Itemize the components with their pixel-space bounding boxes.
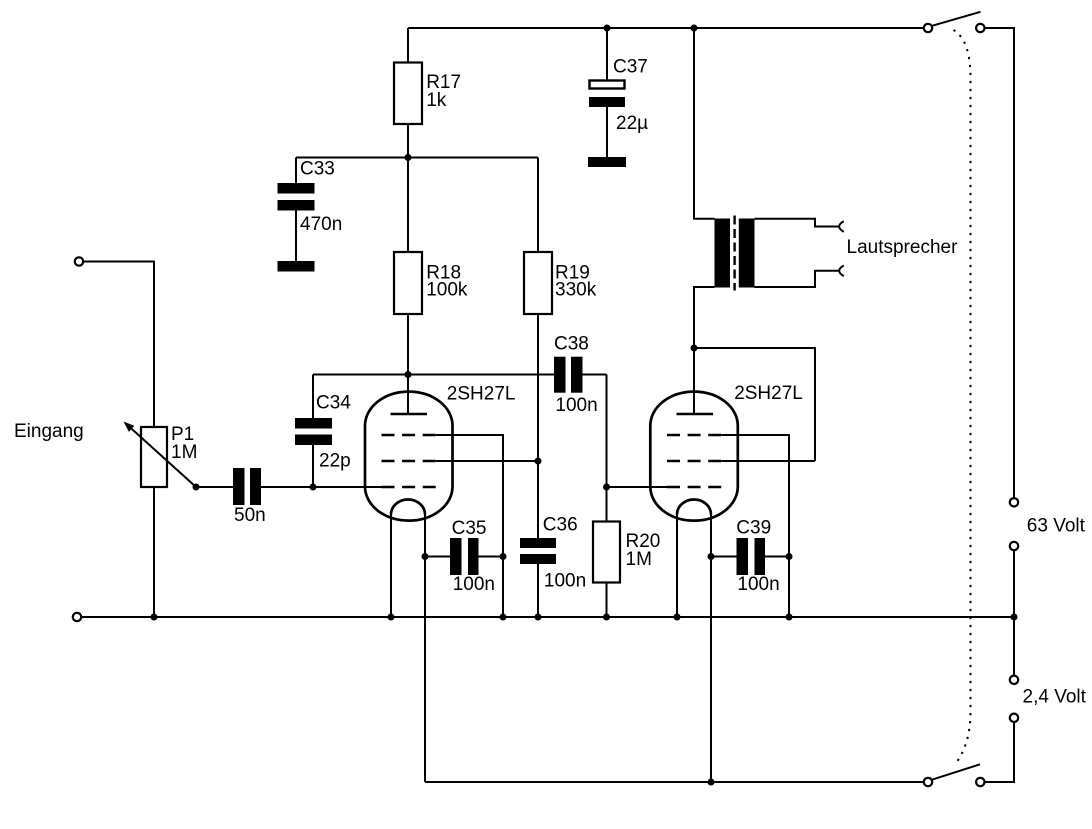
wire: right bus down to S1b [985,722,1015,782]
tube V1 2SH27L envelope [365,392,453,521]
node: junction dot C35 right [500,553,507,560]
tube V1 cathode arc [391,500,425,515]
svg-text:100n: 100n [453,574,495,595]
node: dot ground/V1 g3 [500,614,507,621]
svg-text:470n: 470n [300,214,342,235]
potentiometer P1 1M [124,422,198,488]
node: junction dot R18/anode/grid-box wire [405,371,412,378]
svg-text:2SH27L: 2SH27L [447,383,516,404]
resistor R19 [524,158,597,315]
wire: bottom heater bus [425,781,924,783]
tube V2 grid g3 (dashed) [667,434,722,437]
terminal: 63V lower circle [1010,542,1018,550]
svg-text:C33: C33 [300,159,335,180]
svg-text:22p: 22p [319,451,351,472]
svg-text:2SH27L: 2SH27L [734,383,803,404]
wire: V1 right filament leg down to bottom heater bus [424,515,426,783]
wire: V2 g1 to R20 node [607,486,668,488]
wire: horizontal C34 top to C38 left plate [313,374,554,376]
node: dot ground/V2 filament [674,614,681,621]
svg-text:1M: 1M [171,442,197,463]
node: junction dot C39 left [708,553,715,560]
svg-text:C36: C36 [543,515,578,536]
svg-text:100n: 100n [555,395,597,416]
capacitor 50n coupling [233,468,266,526]
svg-text:C37: C37 [613,57,648,78]
tube V2 grid g1 (dashed) [667,486,722,489]
tube V2 cathode arc [677,500,711,515]
transformer T1 core (dashed) [733,216,735,291]
capacitor C37 22u electrolytic [589,28,648,157]
svg-text:Eingang: Eingang [14,421,84,442]
capacitor C35 100n [425,518,503,595]
node: dot heater bus / V2 filament [708,779,715,786]
wire: R18 bottom to tube V1 anode [407,314,409,413]
wire: input to P1 top [83,262,154,428]
terminal: speaker upper arc [839,221,844,232]
node: dot ground/P1 [151,614,158,621]
terminal: S1b left contact [924,778,932,786]
tube V1 grid g2 (dashed) [382,460,437,463]
tube V2 grid g2 (dashed) [667,460,722,463]
wire: S1a to right bus corner [985,28,1015,498]
node: dot ground/C36 [535,614,542,621]
wire: R17 bottom to R18 top [407,124,409,252]
terminal: 2,4V upper circle [1010,676,1018,684]
tube V2 anode [677,413,714,416]
terminal: 63V upper circle [1010,498,1018,506]
wire: top B+ bus from R17 top to switch S1a [408,27,924,29]
wire: C38 right down to V2 grid [606,375,608,488]
svg-text:330k: 330k [555,280,597,301]
capacitor C34 22p [295,375,351,488]
node: junction dot R19 line / V1 screen grid [535,458,542,465]
svg-text:100k: 100k [426,280,468,301]
capacitor C38 100n [554,333,607,416]
svg-text:C34: C34 [316,392,351,413]
svg-text:100n: 100n [544,571,586,592]
svg-text:2,4 Volt: 2,4 Volt [1023,687,1087,708]
node: dot ground/R20 [603,614,610,621]
terminal: S1b right contact [976,778,984,786]
switch linkage (dotted) [954,30,971,765]
svg-text:1M: 1M [626,549,652,570]
terminal: speaker lower arc [839,266,844,277]
terminal: 2,4V lower circle [1010,714,1018,722]
transformer T1 secondary winding bar [739,219,755,288]
node: junction dot P1 wiper [193,484,200,491]
wire: 50n to V1 grid [261,486,382,488]
node: junction dot V2 anode / feedback [691,345,698,352]
terminal: input upper circle [75,257,83,265]
node: junction dot transformer primary top on B+ bus [691,25,698,32]
svg-text:1k: 1k [426,90,447,111]
wire: V2 g2 to feedback line [721,460,815,462]
wire: V2 left filament leg to ground bus [676,515,678,618]
node: junction dot C39 right [786,553,793,560]
svg-text:63 Volt: 63 Volt [1027,515,1086,536]
svg-text:22µ: 22µ [616,113,648,134]
tube V2 2SH27L envelope [650,392,738,521]
svg-text:C39: C39 [736,518,771,539]
wire: horizontal from C33 to R19 top [296,157,538,159]
wire: B+ bus down to transformer primary [694,28,715,219]
resistor R18 [394,252,468,314]
resistor R20 1M [593,487,660,617]
wire: wiper to 50n [196,486,233,488]
node: dot ground/V1 filament [388,614,395,621]
node: junction dot V2 grid / R20 top [603,484,610,491]
terminal: input lower circle [73,613,81,621]
wire: secondary top to speaker terminal [755,219,839,227]
node: junction dot C34 bottom / grid [310,484,317,491]
wire: feedback from V2 anode to screen grid [694,348,815,461]
tube V1 anode [391,375,428,415]
wire: primary bottom to V2 anode [694,287,715,414]
switch S1a blade [932,12,981,26]
wire: V2 g3 right then down to ground [721,435,789,617]
wire: P1 bottom to ground bus [153,487,155,617]
wire: g2 to R19 line [436,460,538,462]
node: junction dot R17/R18/C33/R19 [405,154,412,161]
tube V1 grid g1 (dashed) [382,486,437,489]
transformer T1 primary winding bar [715,219,731,288]
node: dot ground/right bus [1011,614,1018,621]
capacitor C36 100n [520,515,586,617]
wire: g3 to right then down to ground [436,435,503,617]
node: junction dot C37 top on B+ bus [604,25,611,32]
wire: right bus 63V to 2,4V [1013,550,1015,675]
capacitor C39 100n [711,518,789,595]
wire: V2 right filament leg down to bottom heater bus [710,515,712,783]
ground: chassis bar at C33 bottom [278,261,315,272]
resistor R17 [394,28,461,124]
svg-text:C35: C35 [452,518,487,539]
switch S1b blade [932,764,980,779]
svg-text:50n: 50n [234,505,266,526]
terminal: S1a right contact [976,24,984,32]
wire: ground bus [81,616,1014,618]
wire: R19 bottom down to C36 top [537,314,539,538]
ground: chassis bar at C37 bottom [588,157,626,167]
svg-text:100n: 100n [737,574,779,595]
terminal: S1a left contact [924,24,932,32]
wire: V1 left filament leg to ground bus [390,515,392,618]
wire: secondary bottom to speaker terminal [755,271,839,287]
svg-text:Lautsprecher: Lautsprecher [847,237,959,258]
svg-text:C38: C38 [554,333,589,354]
tube V1 grid g3 (dashed) [382,434,437,437]
node: dot ground/V2 g3 [786,614,793,621]
capacitor C33 470n [278,158,343,262]
node: junction dot C35 left [422,553,429,560]
